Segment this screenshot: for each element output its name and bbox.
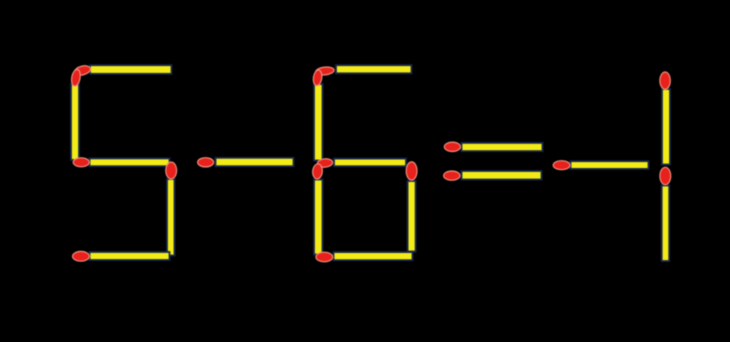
digit 5 : bottom horizontal matchstick (73, 251, 170, 261)
digit 6 : bottom-right vertical matchstick (406, 162, 417, 252)
minus sign matchstick (198, 158, 294, 167)
digit 4 : middle horizontal matchstick (553, 161, 648, 170)
equals sign : top matchstick (444, 142, 542, 151)
digit 6 : middle horizontal matchstick (317, 158, 406, 168)
digit 5 : top horizontal matchstick (73, 64, 171, 77)
digit 6 : bottom-left vertical matchstick (312, 164, 323, 255)
digit 4 : upper-right vertical matchstick (660, 72, 670, 165)
digit 5 : bottom-right vertical matchstick (166, 162, 177, 255)
digit 6 : top horizontal matchstick (315, 65, 411, 76)
digit 6 : bottom horizontal matchstick (316, 252, 413, 262)
digit 5 : middle horizontal matchstick (73, 158, 169, 167)
digit 6 : top-left vertical matchstick (312, 69, 322, 160)
digit 4 : lower-right vertical matchstick (660, 167, 671, 261)
equals sign : bottom matchstick (444, 171, 542, 180)
digit 5 : top-left vertical matchstick (70, 69, 81, 160)
